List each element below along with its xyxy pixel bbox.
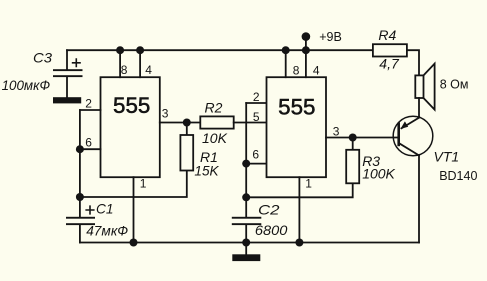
loudspeaker BA1 cone <box>424 64 435 110</box>
svg-text:5: 5 <box>253 110 260 124</box>
svg-text:555: 555 <box>278 95 315 120</box>
svg-text:+9В: +9В <box>319 30 342 44</box>
wire: R2 to pins 2/5 of second 555 <box>234 122 267 124</box>
capacitor C3 top plate <box>53 69 83 71</box>
ground symbol under C2 <box>232 254 260 261</box>
svg-text:100K: 100K <box>362 166 395 182</box>
wire: C3 top lead from rail <box>66 50 68 69</box>
svg-text:4: 4 <box>145 63 152 77</box>
svg-text:C3: C3 <box>33 49 52 65</box>
wire: collector to ground rail <box>418 155 420 242</box>
svg-text:15K: 15K <box>194 163 219 179</box>
wire: pin 1 of first 555 to ground rail <box>133 177 135 242</box>
svg-text:555: 555 <box>113 93 150 118</box>
wire: R1 bottom to pins 2/6 net <box>80 171 187 198</box>
wire: pin 4 of second 555 to rail <box>305 50 307 77</box>
svg-text:6: 6 <box>252 148 259 162</box>
wire: pin 2 of first 555 <box>80 109 101 111</box>
svg-text:BD140: BD140 <box>439 169 477 183</box>
junction at R1 bottom net <box>76 193 84 201</box>
junction pin1 first 555 on ground rail <box>130 239 138 247</box>
svg-text:47мкФ: 47мкФ <box>86 222 128 238</box>
svg-text:8: 8 <box>121 63 128 77</box>
capacitor C2 top plate <box>232 217 261 219</box>
wire: ground stub below rail <box>245 243 247 255</box>
capacitor C2 bottom plate <box>232 223 261 225</box>
svg-text:C2: C2 <box>258 202 280 218</box>
loudspeaker BA1 frame <box>415 75 423 98</box>
resistor R1 body <box>180 135 193 171</box>
node +9V supply terminal dot <box>302 32 311 41</box>
wire: +9V terminal stub <box>305 37 307 51</box>
wire: C2 to ground rail <box>245 225 247 242</box>
capacitor C1 top plate <box>66 217 95 219</box>
svg-text:8 Ом: 8 Ом <box>440 78 469 92</box>
wire: bottom ground rail <box>80 242 419 244</box>
capacitor C1 bottom plate <box>66 223 95 225</box>
svg-text:R4: R4 <box>378 27 396 43</box>
junction at pin 6 of second 555 <box>242 160 250 168</box>
svg-text:VT1: VT1 <box>434 149 460 165</box>
wire: pin 6 of first 555 <box>80 148 101 150</box>
wire: C1 to ground rail <box>79 225 81 242</box>
junction pin3 / R3 / base node <box>349 134 357 142</box>
wire: left vertical net (pins 2,6, C1, R1) <box>79 110 81 217</box>
svg-text:6: 6 <box>85 136 92 150</box>
plus sign of C1 <box>86 206 94 214</box>
junction at pin 6 net <box>76 145 84 153</box>
wire: pin 3 of second 555 to transistor base <box>326 137 398 139</box>
junction on rail at pin 4 (first 555) <box>136 46 144 54</box>
svg-text:10K: 10K <box>202 130 228 146</box>
wire: R3 bottom to C2 net <box>246 183 353 197</box>
transistor VT1 emitter with PNP arrow <box>402 117 420 128</box>
wire: pin 4 of first 555 to rail <box>139 50 141 77</box>
transistor VT1 base bar <box>397 124 400 145</box>
resistor R2 body <box>200 116 233 128</box>
svg-text:6800: 6800 <box>255 222 288 238</box>
op-amp U1: 555 timer IC body (first) <box>101 77 160 177</box>
transistor VT1 collector <box>400 144 419 156</box>
svg-text:3: 3 <box>162 107 169 121</box>
svg-text:2: 2 <box>85 97 92 111</box>
junction pin1 second 555 on ground rail <box>295 239 303 247</box>
wire: vertical tie net (pins 2,5,6, C2, R3) <box>245 103 247 217</box>
resistor R4 body <box>373 44 407 56</box>
svg-text:1: 1 <box>305 177 312 191</box>
op-amp U2: 555 timer IC body (second) <box>267 77 327 177</box>
junction at R3 bottom net <box>242 193 250 201</box>
svg-text:C1: C1 <box>96 201 114 217</box>
svg-text:2: 2 <box>253 90 260 104</box>
transistor VT1 circle <box>393 116 433 156</box>
svg-text:100мкФ: 100мкФ <box>2 77 51 93</box>
ground symbol under C3 <box>53 97 81 103</box>
svg-text:R2: R2 <box>205 100 223 116</box>
wire: pin 8 of first 555 to rail <box>119 50 121 77</box>
svg-text:3: 3 <box>333 124 340 138</box>
capacitor C3 bottom plate <box>53 75 83 77</box>
plus sign of C3 <box>73 59 80 66</box>
resistor R3 body <box>346 150 359 184</box>
svg-text:4,7: 4,7 <box>379 56 400 72</box>
wire: R3 top lead <box>352 138 354 150</box>
junction on rail at pin 4 (second 555) <box>302 46 310 54</box>
svg-text:4: 4 <box>313 63 320 77</box>
wire: R4 to loudspeaker <box>407 50 419 75</box>
junction on rail at pin 8 (second 555) <box>282 46 290 54</box>
wire: pin 6 of second 555 <box>246 163 266 165</box>
wire: loudspeaker to transistor emitter <box>418 98 420 117</box>
wire: pin 2 stub of second 555 <box>246 102 266 104</box>
junction C2 on ground rail <box>242 239 250 247</box>
svg-text:8: 8 <box>293 63 300 77</box>
wire: pin 1 of second 555 to ground rail <box>298 177 300 242</box>
wire: pin 8 of second 555 to rail <box>285 50 287 77</box>
junction pin3 / R1 / R2 node <box>183 119 191 127</box>
wire: C3 to ground stub <box>66 77 68 97</box>
junction on rail at pin 8 (first 555) <box>116 46 124 54</box>
wire: R1 top lead <box>186 123 188 136</box>
wire: pin 3 of first 555 to R2 <box>160 122 201 124</box>
svg-text:1: 1 <box>140 176 147 190</box>
wire: +9V top rail <box>67 49 373 51</box>
